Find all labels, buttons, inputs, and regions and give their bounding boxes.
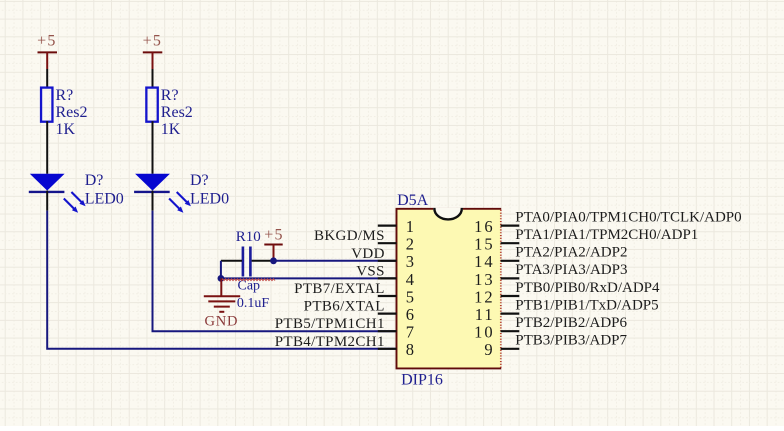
svg-text:PTB0/PIB0/RxD/ADP4: PTB0/PIB0/RxD/ADP4 xyxy=(515,280,660,296)
resistor R2 xyxy=(146,87,192,138)
svg-text:4: 4 xyxy=(406,270,414,289)
svg-text:+5: +5 xyxy=(37,33,56,50)
svg-text:VSS: VSS xyxy=(356,263,385,279)
svg-text:0.1uF: 0.1uF xyxy=(237,296,270,311)
LED D1 xyxy=(29,172,124,213)
svg-text:10: 10 xyxy=(474,323,495,342)
power +5 symbol P1 xyxy=(37,33,57,69)
svg-text:D?: D? xyxy=(190,172,209,189)
svg-text:PTA2/PIA2/ADP2: PTA2/PIA2/ADP2 xyxy=(515,245,627,261)
svg-text:PTB7/EXTAL: PTB7/EXTAL xyxy=(294,281,385,297)
wire VSS to U1 pin4 xyxy=(221,277,396,279)
svg-text:PTB6/XTAL: PTB6/XTAL xyxy=(304,299,385,315)
svg-text:8: 8 xyxy=(406,340,414,359)
svg-text:1K: 1K xyxy=(56,121,76,138)
wire VDD to U1 pin3 xyxy=(274,260,397,262)
power +5 symbol P3 xyxy=(264,227,283,261)
LED D2 xyxy=(134,172,229,213)
svg-text:PTA0/PIA0/TPM1CH0/TCLK/ADP0: PTA0/PIA0/TPM1CH0/TCLK/ADP0 xyxy=(515,209,741,225)
capacitor R10 pin 2 xyxy=(252,260,274,262)
svg-text:D5A: D5A xyxy=(397,192,429,209)
svg-text:1: 1 xyxy=(406,217,414,236)
svg-text:3: 3 xyxy=(406,252,414,271)
svg-text:5: 5 xyxy=(406,287,414,306)
junction node VDD xyxy=(270,257,277,264)
pin 12 stub xyxy=(501,295,520,297)
pin 14 stub xyxy=(501,260,520,262)
pin 4 stub xyxy=(378,277,397,279)
pin 9 stub xyxy=(501,348,520,350)
svg-text:PTB3/PIB3/ADP7: PTB3/PIB3/ADP7 xyxy=(515,333,627,349)
svg-text:15: 15 xyxy=(474,235,495,254)
junction node VSS xyxy=(218,275,225,282)
pin 5 stub xyxy=(378,295,397,297)
svg-text:LED0: LED0 xyxy=(190,190,229,207)
svg-text:R?: R? xyxy=(56,87,74,104)
wire cap left down xyxy=(220,261,222,279)
pin 16 stub xyxy=(501,225,520,227)
net error marker xyxy=(221,279,275,281)
pin names right xyxy=(515,209,741,348)
svg-text:R?: R? xyxy=(161,87,179,104)
svg-text:13: 13 xyxy=(474,270,495,289)
svg-text:2: 2 xyxy=(406,235,414,254)
svg-text:12: 12 xyxy=(474,287,495,306)
svg-text:Res2: Res2 xyxy=(56,104,88,121)
pin 2 stub xyxy=(378,242,397,244)
pin 6 stub xyxy=(378,313,397,315)
svg-text:R10: R10 xyxy=(236,229,261,245)
svg-text:PTA1/PIA1/TPM2CH0/ADP1: PTA1/PIA1/TPM2CH0/ADP1 xyxy=(515,227,698,243)
IC U1 body DIP16 xyxy=(397,192,502,388)
wire R2 to D2 xyxy=(152,121,154,174)
svg-text:1K: 1K xyxy=(161,121,181,138)
svg-text:VDD: VDD xyxy=(351,246,385,262)
svg-text:PTA3/PIA3/ADP3: PTA3/PIA3/ADP3 xyxy=(515,262,627,278)
resistor R1 xyxy=(41,87,87,138)
capacitor R10 (Cap 0.1uF) xyxy=(236,229,270,311)
pin 13 stub xyxy=(501,277,520,279)
svg-text:DIP16: DIP16 xyxy=(401,371,443,388)
svg-text:PTB4/TPM2CH1: PTB4/TPM2CH1 xyxy=(275,334,385,350)
wire D1 to U1 pin8 xyxy=(47,211,396,349)
wire P2 to R2 xyxy=(152,69,154,87)
svg-text:PTB2/PIB2/ADP6: PTB2/PIB2/ADP6 xyxy=(515,315,627,331)
pin 11 stub xyxy=(501,313,520,315)
ground GND xyxy=(204,278,240,329)
svg-text:D?: D? xyxy=(85,172,104,189)
svg-text:PTB5/TPM1CH1: PTB5/TPM1CH1 xyxy=(275,316,385,332)
svg-text:6: 6 xyxy=(406,305,414,324)
svg-text:16: 16 xyxy=(474,217,495,236)
pin 15 stub xyxy=(501,242,520,244)
svg-text:7: 7 xyxy=(406,323,414,342)
pin names left xyxy=(275,228,385,350)
wire D2 to U1 pin7 xyxy=(153,211,397,332)
svg-text:+5: +5 xyxy=(143,33,162,50)
pin 3 stub xyxy=(378,260,397,262)
svg-text:Res2: Res2 xyxy=(161,104,193,121)
wire R1 to D1 xyxy=(46,121,48,174)
svg-text:14: 14 xyxy=(474,252,495,271)
pin stubs right xyxy=(501,226,520,349)
pin 10 stub xyxy=(501,330,520,332)
svg-text:9: 9 xyxy=(484,340,494,359)
pin 1 stub xyxy=(378,225,397,227)
pin 7 stub xyxy=(378,330,397,332)
power +5 symbol P2 xyxy=(143,33,163,69)
svg-text:LED0: LED0 xyxy=(85,190,124,207)
pin numbers left xyxy=(406,217,414,359)
svg-text:GND: GND xyxy=(204,314,238,330)
pin numbers right xyxy=(474,217,495,359)
wire P1 to R1 xyxy=(46,69,48,87)
svg-text:11: 11 xyxy=(475,305,495,324)
pin stubs left xyxy=(378,226,397,349)
pin D2 cathode xyxy=(152,191,154,211)
svg-text:BKGD/MS: BKGD/MS xyxy=(314,228,385,244)
pin 8 stub xyxy=(378,348,397,350)
capacitor R10 pin 1 xyxy=(221,260,242,262)
svg-text:PTB1/PIB1/TxD/ADP5: PTB1/PIB1/TxD/ADP5 xyxy=(515,297,658,313)
pin D1 cathode xyxy=(46,191,48,211)
svg-text:+5: +5 xyxy=(264,227,283,244)
